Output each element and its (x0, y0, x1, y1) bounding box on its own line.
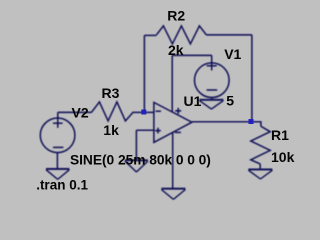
svg-text:R2: R2 (167, 8, 185, 24)
wire op-amp output (192, 121, 252, 123)
op-amp U1 triangle (154, 102, 192, 142)
wire V2 bottom stub (56, 153, 58, 169)
wire inverting input (144, 111, 154, 113)
voltage source V1 circle (194, 63, 229, 98)
wire R2 left lead (144, 34, 156, 36)
wire non-inverting input down to ground (135, 130, 137, 160)
wire R2 right lead horizontal (206, 34, 252, 36)
svg-text:R3: R3 (102, 85, 120, 101)
ground below R1 (248, 169, 272, 179)
ground below op-amp V- (161, 189, 185, 200)
op-amp non-inverting input plus mark (155, 128, 161, 134)
svg-text:.tran 0.1: .tran 0.1 (36, 177, 88, 192)
svg-text:R1: R1 (271, 127, 289, 143)
svg-text:V2: V2 (72, 104, 89, 120)
voltage source V2 circle (40, 118, 75, 153)
svg-text:1k: 1k (103, 122, 119, 138)
resistor R3 (91, 102, 133, 121)
svg-text:5: 5 (226, 93, 234, 109)
wire from R2 right down to output node (251, 35, 253, 121)
resistor R2 (156, 26, 206, 44)
svg-text:SINE(0 25m 80k 0 0 0): SINE(0 25m 80k 0 0 0) (70, 152, 211, 167)
wire op-amp V+ pin vertical (171, 55, 173, 111)
wire R1 bottom stub (259, 164, 261, 169)
wire V2 top stub (pin extends into circle forming plus) (57, 112, 59, 127)
V2 minus mark (53, 146, 63, 148)
wire feedback vertical from R2 left down to inverting node (143, 35, 145, 112)
resistor R1 (251, 126, 270, 164)
ground below non-inverting input (125, 160, 148, 172)
svg-text:V1: V1 (224, 46, 241, 62)
ground below V1 (199, 100, 223, 109)
svg-text:2k: 2k (168, 42, 184, 58)
V1 minus mark (207, 89, 218, 91)
op-amp inverting input minus mark (156, 110, 161, 112)
junction dot at output node (249, 119, 254, 124)
wire non-inverting input (136, 129, 154, 131)
V1 plus mark (207, 65, 217, 67)
op-amp V+ supply plus mark (175, 108, 181, 114)
svg-text:10k: 10k (271, 149, 295, 165)
wire R3 right lead (133, 111, 144, 113)
wire V1 bottom stub (211, 97, 213, 99)
wire supply rail horizontal to V1 (172, 54, 212, 56)
wire V2 to R3 left lead (58, 111, 92, 113)
svg-text:U1: U1 (184, 93, 202, 109)
wire op-amp V- pin vertical to ground (172, 132, 174, 189)
op-amp V- supply minus mark (175, 131, 181, 133)
wire V1 top stub (pin extends into circle forming plus) (211, 55, 213, 70)
V2 plus mark (53, 122, 63, 124)
ground below V2 (46, 169, 69, 180)
wire R1 top lead (251, 122, 261, 126)
junction dot at inverting node (141, 110, 146, 115)
